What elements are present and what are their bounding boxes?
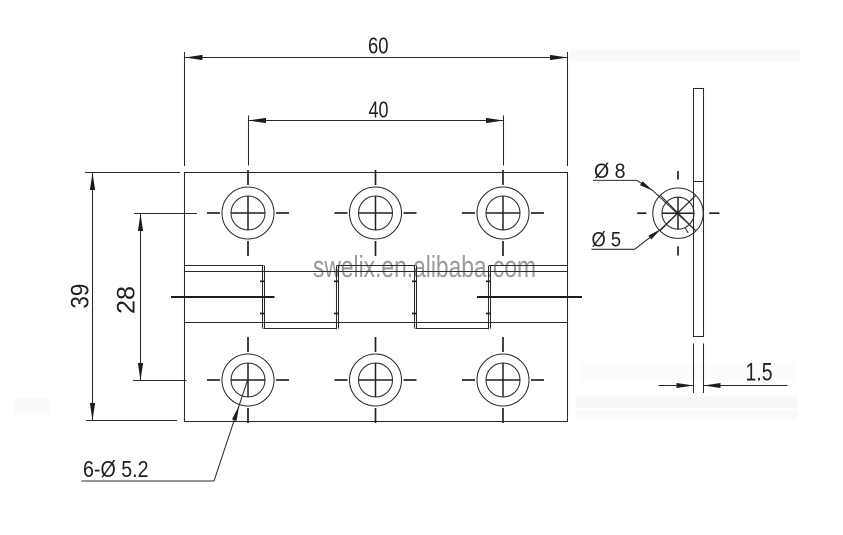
- svg-text:1.5: 1.5: [746, 358, 773, 386]
- svg-text:Ø 8: Ø 8: [594, 159, 626, 183]
- svg-text:Ø 5: Ø 5: [592, 228, 622, 252]
- svg-text:60: 60: [368, 33, 389, 59]
- svg-text:40: 40: [369, 96, 389, 122]
- svg-text:39: 39: [66, 284, 94, 309]
- svg-text:6-Ø 5.2: 6-Ø 5.2: [83, 456, 149, 482]
- svg-text:28: 28: [113, 286, 141, 314]
